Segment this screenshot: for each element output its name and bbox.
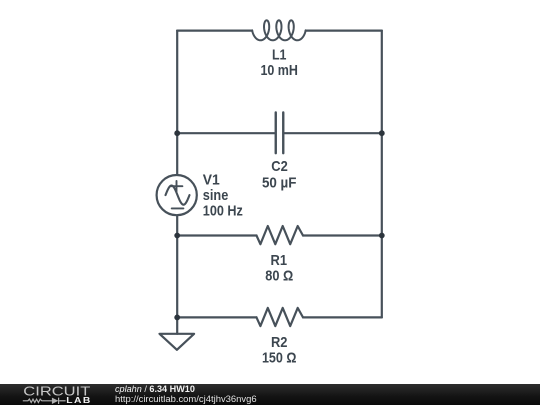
svg-text:V1: V1 — [203, 172, 220, 188]
svg-text:C2: C2 — [271, 159, 288, 175]
svg-text:sine: sine — [203, 188, 229, 204]
svg-text:LAB: LAB — [66, 395, 92, 405]
svg-text:80 Ω: 80 Ω — [265, 269, 293, 285]
svg-text:150 Ω: 150 Ω — [262, 351, 297, 367]
svg-text:R2: R2 — [271, 335, 288, 351]
svg-text:100 Hz: 100 Hz — [203, 203, 243, 219]
svg-text:50 µF: 50 µF — [262, 176, 297, 192]
svg-text:10 mH: 10 mH — [260, 63, 298, 79]
svg-text:R1: R1 — [271, 253, 288, 269]
svg-text:L1: L1 — [272, 47, 287, 63]
